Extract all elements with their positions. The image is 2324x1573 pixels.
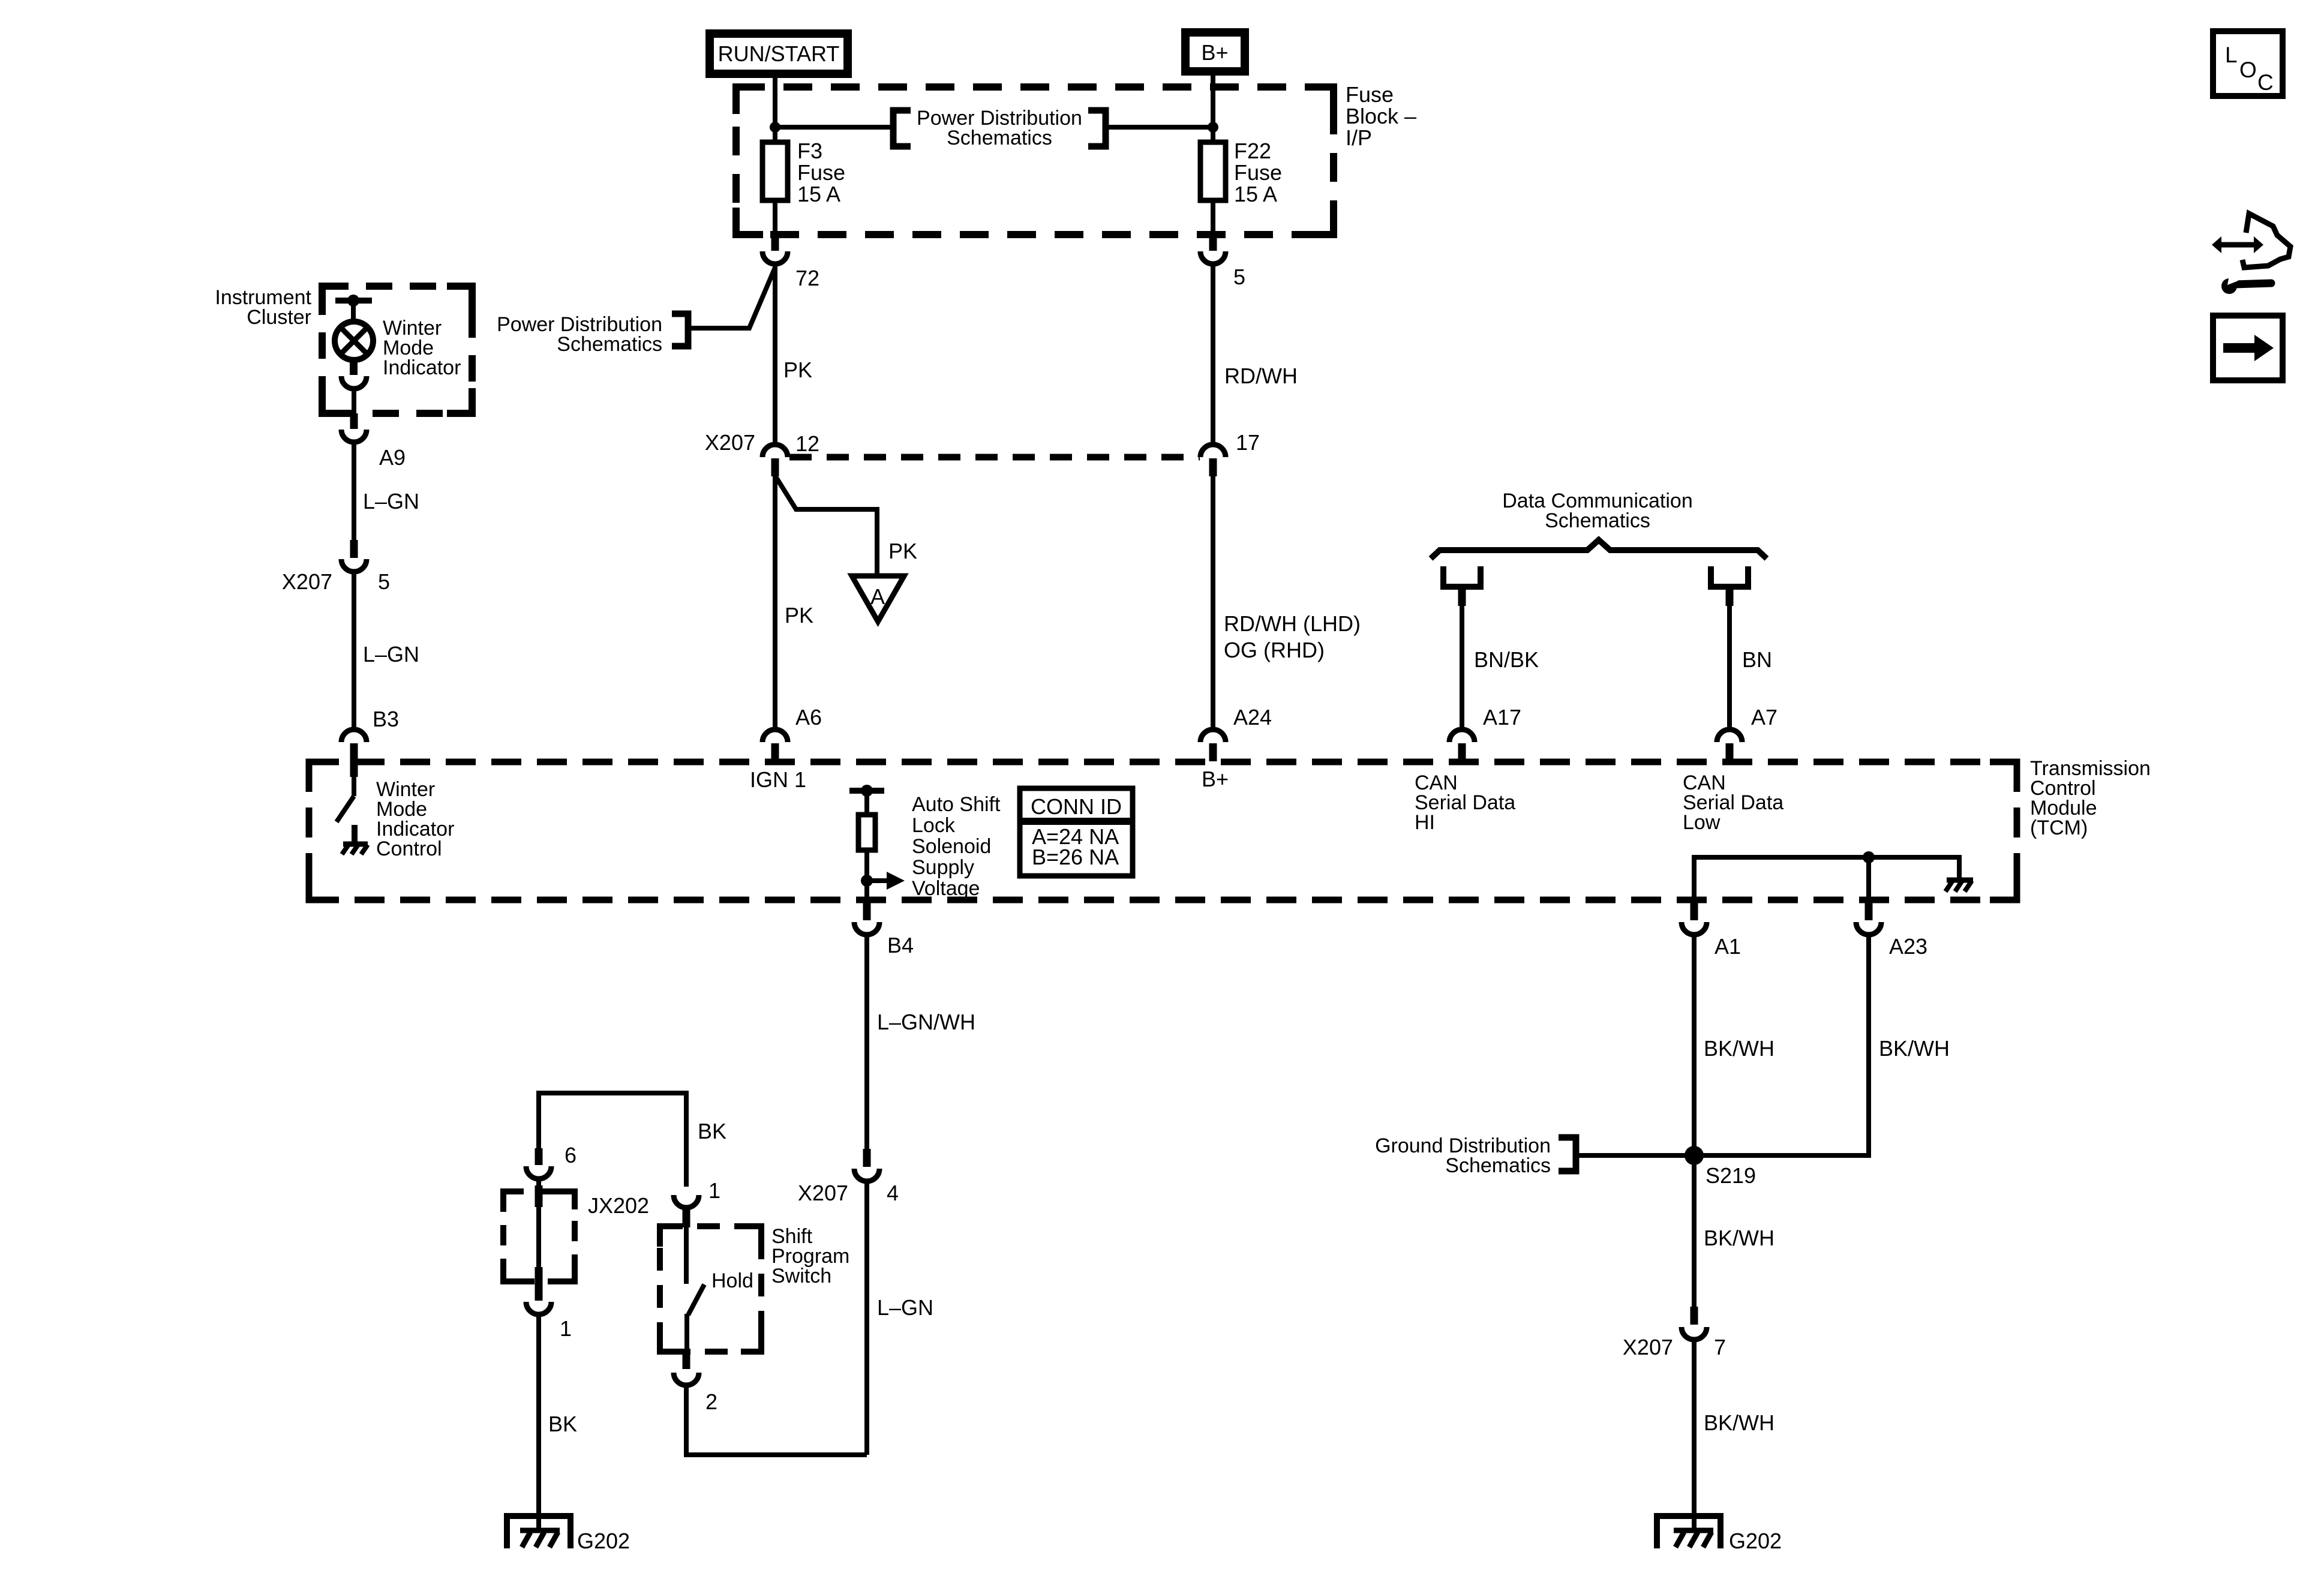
wire branch to power distribution reference (diagonal) xyxy=(691,268,775,328)
node RUN/START (voltage source box) xyxy=(710,34,848,74)
label Winter Mode Indicator Control xyxy=(376,778,454,860)
svg-text:5: 5 xyxy=(378,569,390,594)
bracket reference ] (power distribution, left) xyxy=(672,314,688,346)
connector X207 pin 7 (inline) xyxy=(1623,1307,1726,1359)
winter mode indicator control switch xyxy=(337,774,355,843)
brace (data communication) xyxy=(1431,540,1767,559)
svg-text:PK: PK xyxy=(785,603,813,628)
svg-text:B+: B+ xyxy=(1202,767,1229,791)
svg-text:Schematics: Schematics xyxy=(1445,1154,1551,1177)
svg-text:JX202: JX202 xyxy=(588,1193,649,1218)
label Fuse Block - I/P xyxy=(1346,82,1416,150)
svg-text:A24: A24 xyxy=(1233,705,1272,730)
wire BN xyxy=(1727,587,1732,730)
svg-text:Fuse: Fuse xyxy=(1234,160,1282,185)
wire B+ to fuse F22 xyxy=(1211,71,1215,142)
svg-text:1: 1 xyxy=(708,1178,720,1203)
svg-text:L–GN/WH: L–GN/WH xyxy=(877,1010,975,1034)
wire A23 down and over to S219 xyxy=(1694,933,1869,1155)
svg-text:BK: BK xyxy=(698,1119,726,1143)
icon transmission symbol (head outline) xyxy=(2242,214,2290,268)
svg-text:Schematics: Schematics xyxy=(947,127,1052,149)
connector JX202 pin 1 xyxy=(526,1289,572,1341)
node B+ (voltage source box) xyxy=(1185,32,1245,71)
svg-text:BN: BN xyxy=(1742,647,1772,672)
svg-text:1: 1 xyxy=(560,1316,572,1341)
node junction S (A23 tap) xyxy=(1863,851,1875,863)
svg-text:Schematics: Schematics xyxy=(1545,509,1650,532)
connector pin A24 (TCM top) xyxy=(1200,705,1272,761)
in-line connector JX202 dashed box xyxy=(503,1191,575,1281)
label Power Distribution Schematics (left) xyxy=(497,313,662,356)
label RD/WH (LHD) / OG (RHD) xyxy=(1224,611,1361,662)
wire 6 into JX202 xyxy=(536,1178,541,1296)
icon double arrow xyxy=(2212,236,2263,253)
connector shift switch pin 2 xyxy=(674,1350,717,1414)
svg-text:HI: HI xyxy=(1415,811,1435,834)
fuse block I/P dashed outline xyxy=(736,87,1334,235)
bracket reference left [ xyxy=(893,110,911,146)
svg-text:BK/WH: BK/WH xyxy=(1704,1036,1774,1061)
svg-text:4: 4 xyxy=(887,1181,899,1205)
svg-text:(TCM): (TCM) xyxy=(2030,816,2088,839)
stub JX202 entry xyxy=(535,1185,543,1207)
svg-text:G202: G202 xyxy=(577,1529,630,1553)
svg-text:Switch: Switch xyxy=(771,1265,831,1287)
svg-text:A17: A17 xyxy=(1483,705,1521,730)
ground G202 (right) xyxy=(1657,1516,1782,1553)
svg-text:BK/WH: BK/WH xyxy=(1879,1036,1950,1061)
svg-text:Auto Shift: Auto Shift xyxy=(912,793,1001,816)
wire JX202-1 to G202 xyxy=(536,1313,541,1531)
connector pin A1 (TCM bottom) xyxy=(1682,901,1741,959)
icon forward arrow box xyxy=(2213,316,2283,380)
svg-text:L: L xyxy=(2225,43,2238,67)
svg-text:Supply: Supply xyxy=(912,856,974,879)
svg-text:A6: A6 xyxy=(795,705,822,730)
wire bottom rail (hold switch to L-GN line) xyxy=(686,1386,867,1455)
label CAN Serial Data HI xyxy=(1415,772,1515,834)
svg-text:Fuse: Fuse xyxy=(1346,82,1394,107)
svg-text:BN/BK: BN/BK xyxy=(1474,647,1539,672)
connector X207 pin 17 xyxy=(1200,445,1226,476)
svg-text:OG (RHD): OG (RHD) xyxy=(1224,638,1325,662)
svg-text:IGN 1: IGN 1 xyxy=(750,767,806,792)
connector pin A17 (TCM top) xyxy=(1449,705,1521,761)
wire top rail (BK loop) xyxy=(539,1093,686,1187)
stub JX202 exit xyxy=(535,1267,543,1289)
connector shift switch pin 1 xyxy=(674,1178,720,1227)
connector pin B4 (TCM bottom) xyxy=(854,901,914,957)
svg-text:Fuse: Fuse xyxy=(797,160,845,185)
svg-text:X207: X207 xyxy=(705,430,755,455)
label Ground Distribution Schematics xyxy=(1375,1134,1551,1177)
svg-text:A: A xyxy=(870,584,885,609)
wire connector 72 down to X207-12 xyxy=(773,263,777,445)
connector (lamp terminal inside cluster) xyxy=(341,359,367,389)
auto shift lock solenoid (internal) xyxy=(849,785,884,900)
svg-text:L–GN: L–GN xyxy=(363,489,419,514)
svg-text:X207: X207 xyxy=(798,1181,848,1205)
wire S219 down to X207-7 xyxy=(1692,1155,1697,1308)
icon LOC box xyxy=(2213,31,2283,96)
svg-text:2: 2 xyxy=(705,1389,717,1414)
fuse F22 xyxy=(1200,139,1282,206)
svg-text:A7: A7 xyxy=(1751,705,1777,730)
connector pin A9 (cluster output) xyxy=(341,413,406,470)
CONN ID table xyxy=(1020,788,1133,876)
bracket reference ] (ground distribution) xyxy=(1559,1137,1576,1171)
svg-text:BK: BK xyxy=(548,1412,577,1436)
wire right bracket to F22 line xyxy=(1106,125,1213,130)
svg-text:CONN ID: CONN ID xyxy=(1031,794,1122,819)
wire branch X207-12 to triangle A xyxy=(776,478,877,575)
connector pin 72 (fuse block output) xyxy=(762,234,819,290)
svg-text:O: O xyxy=(2239,58,2257,82)
node junction at F3 top xyxy=(770,122,780,133)
icon wrench xyxy=(2221,275,2271,294)
wire RUN/START to fuse F3 xyxy=(773,74,777,142)
node splice S219 xyxy=(1685,1146,1756,1188)
svg-text:Voltage: Voltage xyxy=(912,877,980,900)
connector pin A7 (TCM top) xyxy=(1717,705,1777,761)
svg-text:6: 6 xyxy=(565,1143,577,1167)
wire A9 to X207-5 xyxy=(352,441,356,541)
svg-text:BK/WH: BK/WH xyxy=(1704,1410,1774,1435)
wire A1 down to S219 xyxy=(1692,933,1697,1155)
label Auto Shift Lock Solenoid Supply Voltage xyxy=(912,793,1001,900)
node junction at F22 top xyxy=(1208,122,1218,133)
terminal (CAN Low reference) xyxy=(1711,566,1748,587)
TCM dashed outline xyxy=(309,762,2017,900)
wire X207-12 down to TCM A6 xyxy=(773,476,777,730)
svg-text:A9: A9 xyxy=(379,445,406,470)
svg-text:RUN/START: RUN/START xyxy=(718,41,840,66)
lamp Winter Mode Indicator (circle-X) xyxy=(335,322,373,360)
svg-text:Schematics: Schematics xyxy=(557,333,662,356)
connector X207 pin 12 xyxy=(762,445,788,476)
svg-text:B+: B+ xyxy=(1201,40,1228,65)
svg-text:15 A: 15 A xyxy=(1234,182,1277,206)
connector JX202 pin 6 xyxy=(526,1143,577,1179)
svg-text:Cluster: Cluster xyxy=(247,306,311,329)
node A (off-page triangle) xyxy=(852,576,904,622)
connector X207 pin 4 (inline) xyxy=(798,1149,899,1205)
svg-text:L–GN: L–GN xyxy=(363,642,419,667)
wire bar to lamp xyxy=(351,301,356,322)
svg-text:15 A: 15 A xyxy=(797,182,840,206)
wire lamp connector to cluster edge xyxy=(352,388,356,414)
svg-text:G202: G202 xyxy=(1729,1529,1782,1553)
label Data Communication Schematics xyxy=(1502,490,1692,532)
node supply bar in cluster xyxy=(335,298,372,304)
ground G202 (left) xyxy=(507,1516,630,1553)
arrow solenoid supply voltage tap xyxy=(867,872,905,890)
svg-text:5: 5 xyxy=(1233,265,1245,289)
node junction dot on bar xyxy=(347,295,359,307)
connector pin B3 (TCM top) xyxy=(341,730,367,777)
svg-text:72: 72 xyxy=(795,266,819,290)
svg-text:Block –: Block – xyxy=(1346,104,1416,128)
connector pin 5 (fuse block output) xyxy=(1200,234,1245,289)
svg-text:B3: B3 xyxy=(373,707,399,731)
svg-text:Lock: Lock xyxy=(912,814,956,837)
svg-text:7: 7 xyxy=(1714,1335,1726,1359)
svg-text:Control: Control xyxy=(376,837,442,860)
svg-text:17: 17 xyxy=(1236,430,1260,455)
node junction (solenoid supply tap) xyxy=(861,875,873,887)
svg-text:BK/WH: BK/WH xyxy=(1704,1226,1774,1250)
wire A23 drop xyxy=(1866,857,1871,900)
terminal (CAN HI reference) xyxy=(1443,566,1481,587)
wire X207-17 down to TCM A24 xyxy=(1211,476,1215,730)
svg-text:S219: S219 xyxy=(1706,1163,1756,1188)
connector pin A23 (TCM bottom) xyxy=(1856,901,1927,959)
svg-text:RD/WH (LHD): RD/WH (LHD) xyxy=(1224,611,1361,636)
svg-text:B4: B4 xyxy=(887,933,914,957)
wire X207-7 to G202 xyxy=(1692,1338,1697,1531)
svg-text:C: C xyxy=(2257,70,2274,95)
svg-text:F3: F3 xyxy=(797,139,822,163)
ground (TCM internal) xyxy=(1945,880,1973,891)
label Transmission Control Module (TCM) xyxy=(2030,757,2151,839)
svg-text:PK: PK xyxy=(783,358,812,382)
svg-text:Low: Low xyxy=(1683,811,1721,834)
wire internal ground bus (A1/A23/ground) xyxy=(1694,857,1959,900)
svg-text:RD/WH: RD/WH xyxy=(1224,364,1298,388)
connector X207 pin 5 (inline) xyxy=(282,540,390,594)
wire bracket to S219 xyxy=(1576,1153,1694,1158)
instrument cluster dashed outline xyxy=(322,286,472,413)
svg-text:Solenoid: Solenoid xyxy=(912,835,991,858)
svg-text:B=26 NA: B=26 NA xyxy=(1032,845,1119,869)
svg-text:X207: X207 xyxy=(282,569,332,594)
wire F3 to connector 72 xyxy=(773,200,777,235)
svg-text:PK: PK xyxy=(888,539,917,563)
switch Hold (blade) xyxy=(686,1227,704,1352)
ground (winter mode control, internal) xyxy=(342,844,368,854)
svg-text:A1: A1 xyxy=(1715,934,1741,959)
wire F22 to connector 5 xyxy=(1211,200,1215,235)
label CAN Serial Data Low xyxy=(1683,772,1783,834)
svg-text:A23: A23 xyxy=(1889,934,1927,959)
label Winter Mode Indicator xyxy=(383,317,461,379)
svg-text:Indicator: Indicator xyxy=(383,356,461,379)
wire BN/BK xyxy=(1460,587,1464,730)
label Shift Program Switch xyxy=(771,1225,849,1287)
wire junction to left bracket xyxy=(775,125,890,130)
shift program switch dashed box xyxy=(660,1226,761,1352)
connector pin A6 (TCM top) xyxy=(762,705,822,761)
wire B4 to X207-4 xyxy=(864,933,869,1150)
wire X207-4 down to bottom rail xyxy=(864,1180,869,1455)
label Power Distribution Schematics (top) xyxy=(917,107,1082,149)
svg-text:12: 12 xyxy=(795,431,819,456)
wire dashed X207 line 12 to 17 xyxy=(789,454,1200,461)
wire X207-5 to TCM B3 xyxy=(352,571,356,730)
svg-text:I/P: I/P xyxy=(1346,125,1372,150)
svg-text:F22: F22 xyxy=(1234,139,1271,163)
label Instrument Cluster xyxy=(215,286,311,329)
svg-text:X207: X207 xyxy=(1623,1335,1673,1359)
fuse F3 xyxy=(762,139,845,206)
svg-text:Hold: Hold xyxy=(711,1269,753,1292)
svg-text:L–GN: L–GN xyxy=(877,1295,933,1320)
wire connector 5 down to X207-17 xyxy=(1211,263,1215,445)
bracket reference right ] xyxy=(1088,110,1106,146)
